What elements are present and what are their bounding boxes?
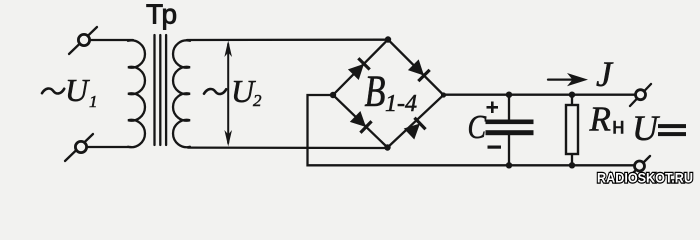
wire bridge right vertex, plus rail <box>444 94 636 96</box>
U2 arrow head down <box>224 130 232 147</box>
resistor Rn bottom lead <box>571 154 573 165</box>
wire top-left terminal to primary <box>90 39 133 41</box>
resistor Rn body <box>566 105 578 154</box>
U2 measurement double arrow <box>227 44 229 143</box>
junction dot resistor top <box>569 92 575 98</box>
transformer T1 primary winding <box>128 40 145 147</box>
wire secondary top to bridge top <box>187 39 388 42</box>
U2 arrow head up <box>224 41 232 58</box>
resistor Rn top lead <box>571 95 573 105</box>
wire secondary bottom to bridge bottom <box>188 146 388 149</box>
svg-text:н: н <box>612 113 625 139</box>
U= equals sign <box>658 124 686 128</box>
junction dot bridge right <box>441 92 446 97</box>
junction dot resistor bottom <box>569 162 575 168</box>
capacitor minus sign <box>488 146 502 149</box>
terminal output minus <box>629 156 650 177</box>
svg-text:U: U <box>65 72 90 108</box>
tilde of ~U1 <box>42 89 64 94</box>
capacitor C plate top <box>486 120 534 125</box>
capacitor C plate bottom <box>486 130 534 135</box>
diode D2 top-right <box>408 59 431 82</box>
svg-text:1: 1 <box>89 92 98 111</box>
svg-text:RADIOSKOT.RU: RADIOSKOT.RU <box>597 170 693 186</box>
wire bottom-left terminal to primary <box>87 146 131 148</box>
svg-text:1-4: 1-4 <box>385 91 417 117</box>
tilde of ~U2 <box>204 89 226 94</box>
svg-text:C: C <box>468 107 488 145</box>
junction dot bridge top <box>385 36 391 42</box>
junction dot bridge bottom <box>384 144 390 150</box>
diode D1 top-left <box>348 57 371 80</box>
J arrow head <box>567 73 588 86</box>
terminal output plus <box>630 84 651 106</box>
svg-text:В: В <box>365 66 386 115</box>
diode D3 bottom-left <box>350 111 373 134</box>
terminal X2 bottom-left <box>65 134 93 161</box>
capacitor C top lead <box>508 95 510 120</box>
junction dot bridge left <box>330 92 336 98</box>
svg-text:2: 2 <box>253 91 262 110</box>
bridge diamond wires <box>333 40 444 148</box>
transformer T1 secondary winding <box>173 40 190 147</box>
diode D4 bottom-right <box>403 117 426 140</box>
junction dot capacitor bottom <box>506 162 512 168</box>
svg-text:R: R <box>589 99 611 138</box>
junction dot capacitor top <box>506 92 512 98</box>
capacitor plus sign <box>487 106 499 109</box>
wire bridge left vertex to minus rail <box>308 95 635 165</box>
svg-text:J: J <box>596 54 614 94</box>
transformer T1 core <box>153 35 155 145</box>
current J arrow shaft <box>548 78 580 80</box>
terminal X1 top-left <box>69 27 97 54</box>
capacitor C bottom lead <box>508 135 510 165</box>
svg-text:U: U <box>632 108 660 148</box>
svg-text:Тр: Тр <box>146 0 177 29</box>
